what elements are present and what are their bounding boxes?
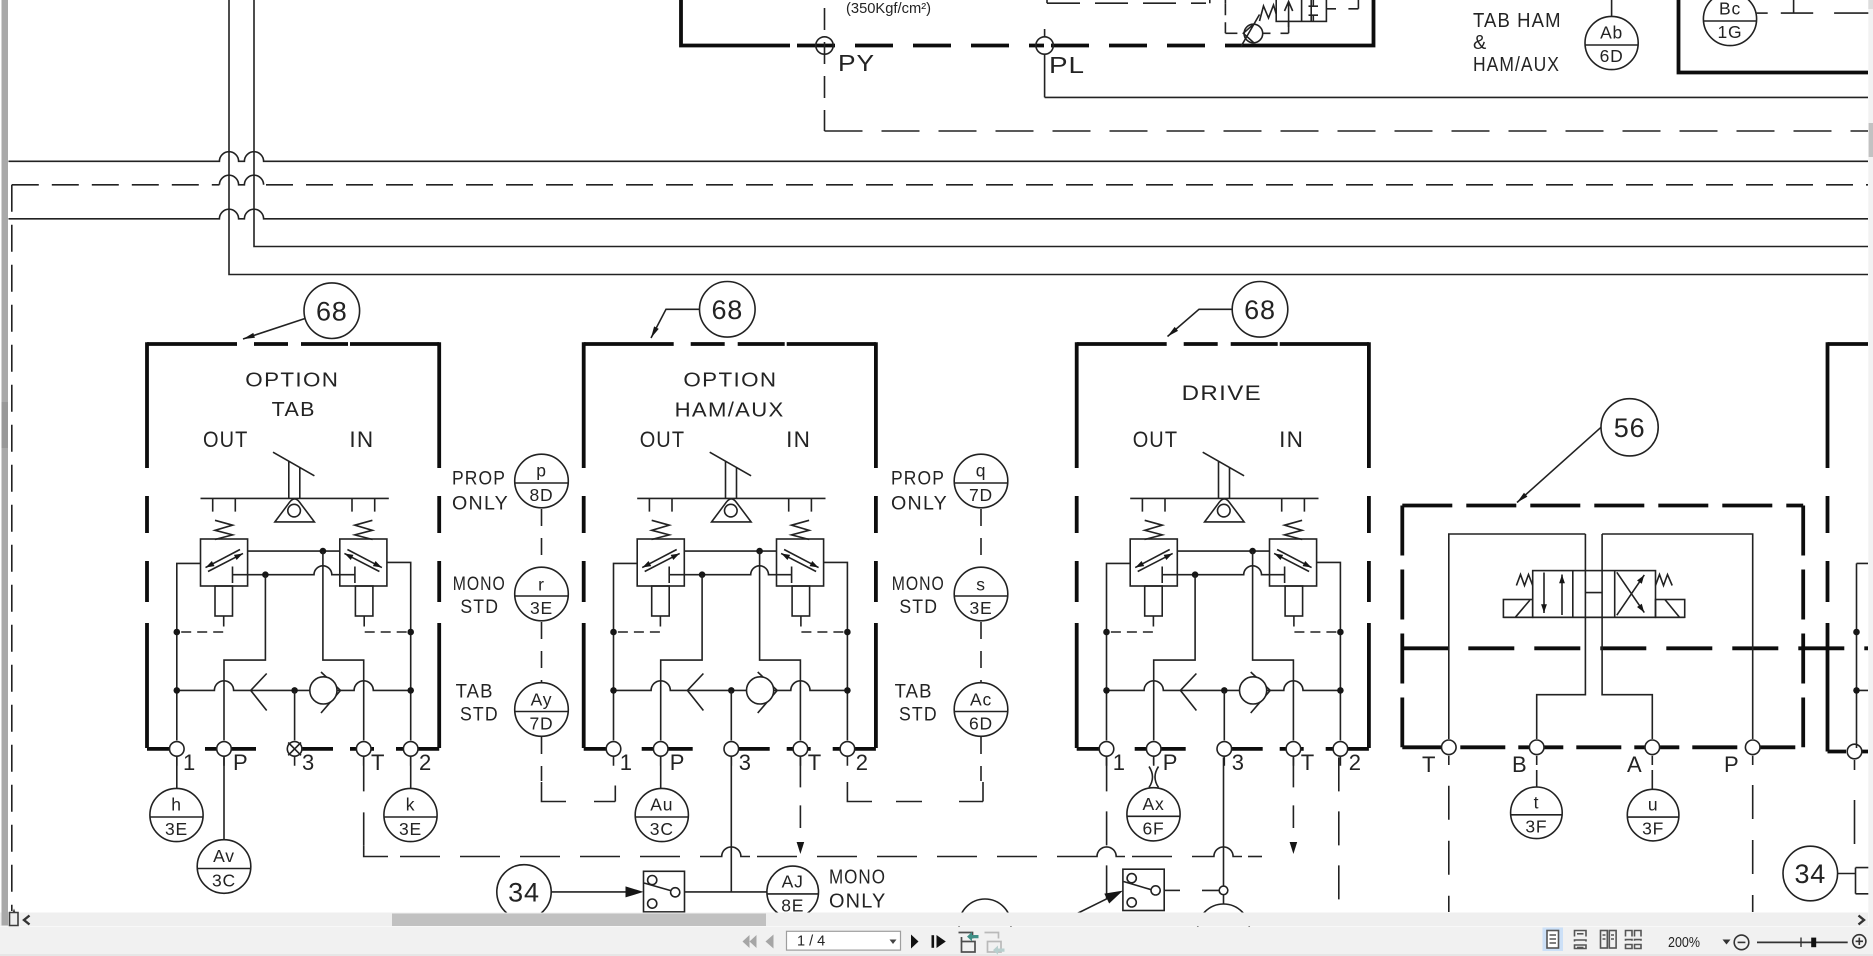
balloon Ax/6F with disconnect marks: [1153, 757, 1155, 764]
svg-text:PY: PY: [838, 50, 875, 76]
pilot T symbol: [1781, 0, 1813, 13]
valve block 1 OPTION TAB: [147, 342, 439, 775]
previous page button (disabled): [766, 935, 774, 949]
block 56 left frame: [1449, 534, 1586, 739]
wire: pilot line right of relief valve: [1326, 0, 1358, 9]
svg-text:3E: 3E: [399, 819, 422, 839]
balloon 68 (block 1): [304, 283, 360, 339]
balloon column p/r/Ay: [515, 454, 569, 781]
svg-text:B: B: [1512, 752, 1527, 777]
svg-text:3E: 3E: [165, 819, 188, 839]
check valve CV1: [1244, 24, 1263, 43]
balloon Av/3C: [223, 757, 225, 839]
svg-text:34: 34: [1794, 859, 1826, 889]
first page button (disabled): [743, 935, 750, 948]
svg-text:ONLY: ONLY: [829, 891, 887, 913]
wire: vertical V2 + full width line L4: [254, 0, 1868, 247]
dashed region boundary with jump arcs: [364, 846, 388, 857]
right clipped valve block left dashed edge: [1826, 342, 1830, 751]
wire: thick dashed supply line PY-PL: [797, 44, 1044, 48]
svg-text:200%: 200%: [1668, 935, 1700, 951]
svg-text:8D: 8D: [530, 485, 554, 505]
block 56 dashed enclosure: [1402, 504, 1803, 508]
two page view button: [1601, 931, 1617, 949]
block 56 right frame: [1602, 534, 1753, 739]
scroll left arrow: [24, 916, 30, 925]
svg-text:P: P: [1724, 752, 1739, 777]
valve block 2 OPTION HAM/AUX: [584, 342, 876, 775]
dashed U link column1 to block2 port1: [542, 782, 616, 802]
node PY: [816, 37, 833, 54]
wire: switch S2 output: [1164, 889, 1180, 891]
balloon 56: [1601, 399, 1658, 456]
valve block 3 DRIVE: [1077, 342, 1369, 775]
wire: dashed drop from block3 port 2: [1338, 757, 1340, 920]
svg-text:1 / 4: 1 / 4: [797, 934, 825, 950]
svg-text:ONLY: ONLY: [452, 494, 509, 515]
leader to block 2: [651, 309, 700, 338]
svg-text:u: u: [1648, 795, 1659, 815]
valve center cell closed tick: [1585, 592, 1602, 594]
wire: dashed drop below right block port: [1854, 800, 1856, 844]
right vertical scrollbar: [1868, 0, 1873, 930]
mini page icon bottom left: [10, 913, 19, 926]
block 56 port ticks: [1449, 756, 1753, 765]
svg-text:TAB: TAB: [272, 399, 316, 421]
svg-text:OPTION: OPTION: [245, 370, 339, 392]
block 56 port A: [1645, 740, 1660, 755]
svg-text:ONLY: ONLY: [891, 494, 948, 515]
svg-text:3C: 3C: [212, 871, 236, 891]
left pane scrollbar strip: [2, 0, 9, 926]
zoom out button: [1734, 935, 1749, 950]
block 56 port T: [1442, 740, 1457, 755]
wire: dashed drop from 56 port P: [1752, 785, 1754, 912]
node junction below block3 port3: [1219, 886, 1228, 895]
balloon Ab/6D: [1611, 0, 1613, 16]
block 56 port P: [1745, 740, 1760, 755]
svg-text:Ax: Ax: [1142, 794, 1164, 814]
svg-text:TAB: TAB: [456, 682, 494, 703]
leader to block 1: [243, 319, 305, 340]
balloon h/3E: [176, 757, 178, 788]
node PL: [1036, 37, 1053, 54]
svg-text:3E: 3E: [969, 598, 992, 618]
wire: block3 port 3 drop to node: [1223, 757, 1225, 886]
balloon column q/s/Ac: [954, 454, 1008, 781]
svg-text:STD: STD: [460, 705, 499, 726]
dashed boundary through block 56 row: [1402, 646, 1868, 650]
balloon AJ/8E: [767, 866, 819, 918]
block 56 port B: [1529, 740, 1544, 755]
svg-text:DRIVE: DRIVE: [1182, 382, 1263, 405]
svg-text:PROP: PROP: [891, 469, 945, 490]
svg-text:OPTION: OPTION: [683, 370, 777, 392]
wire: left dashed region border: [11, 185, 13, 911]
right clipped valve block top edge: [1828, 342, 1869, 346]
svg-text:6D: 6D: [1600, 46, 1624, 66]
last page button: [932, 935, 935, 948]
svg-text:7D: 7D: [969, 485, 993, 505]
valve springs: [1516, 575, 1532, 586]
wire: switch S1 to balloon AJ: [685, 891, 767, 893]
wire: dashed pilot boundary from PY to right edge: [825, 130, 1869, 132]
page number input: [787, 931, 901, 950]
svg-text:T: T: [1422, 752, 1436, 777]
scroll right arrow: [1859, 916, 1865, 925]
right clipped valve block bottom edge with port: [1828, 750, 1869, 754]
wire: thin line from PL to right edge: [1045, 96, 1868, 98]
leader to block 3: [1168, 309, 1233, 336]
balloon Bc/1G (cut at top): [1703, 0, 1756, 46]
snapshot icon: [959, 933, 976, 953]
svg-text:Ac: Ac: [970, 690, 992, 710]
svg-text:Ay: Ay: [531, 690, 553, 710]
svg-text:Av: Av: [213, 846, 235, 866]
svg-text:6D: 6D: [969, 714, 993, 734]
svg-text:TAB HAM: TAB HAM: [1473, 10, 1562, 32]
wire: dashed arrow from block2 port T to boundary: [799, 757, 801, 828]
wire: thick supply line right + corner up: [1262, 0, 1374, 47]
balloon t/3F: [1536, 770, 1538, 787]
relief valve spring: [1260, 5, 1277, 21]
balloon 34 left: [497, 865, 551, 919]
svg-text:3E: 3E: [530, 598, 553, 618]
svg-text:p: p: [536, 461, 547, 481]
svg-text:TAB: TAB: [895, 682, 933, 703]
balloon (cut) below column2: [959, 899, 1011, 951]
svg-text:AJ: AJ: [782, 872, 804, 892]
wire: block2 port 3 drop to switch wire: [730, 757, 732, 892]
svg-text:s: s: [976, 575, 986, 595]
directional valve body: [1533, 571, 1656, 618]
balloon 34 right: [1783, 846, 1838, 901]
svg-text:1G: 1G: [1718, 22, 1743, 42]
wire: dashed drop from block1 port T: [363, 757, 365, 845]
wire: full width line L1 with jump arcs: [9, 152, 1869, 162]
svg-text:34: 34: [508, 878, 540, 908]
wire: dashed pilot line at top: [1046, 0, 1048, 3]
svg-text:t: t: [1534, 793, 1540, 813]
svg-text:3F: 3F: [1642, 819, 1664, 839]
wire: dashed from CV1 to relief valve: [1263, 22, 1289, 33]
wire: thick supply box top-left corner: [681, 0, 790, 46]
next page button: [911, 935, 919, 949]
svg-text:3C: 3C: [650, 819, 674, 839]
wire: dashed drop from 56 port T: [1448, 786, 1450, 912]
zoom in button: [1853, 935, 1866, 948]
port 3 plug cross (block 1): [288, 743, 301, 756]
svg-text:HAM/AUX: HAM/AUX: [675, 400, 785, 422]
balloon u/3F: [1651, 770, 1653, 789]
balloon 68 (block 2): [700, 282, 756, 338]
wire: dashed arrow from block3 port T to boundary: [1292, 757, 1294, 828]
wire: thick box top right: [1679, 0, 1869, 73]
svg-text:PL: PL: [1049, 52, 1085, 78]
wire from balloon 34 to right edge bracket: [1838, 868, 1869, 894]
wire: full width dashed line L2 with jump arcs: [12, 184, 220, 186]
wire: dashed drop from block3 port 1: [1106, 757, 1108, 920]
right clipped block internal wire with junction dots: [1857, 563, 1869, 748]
relief valve RV1 (cut at top): [1276, 0, 1326, 21]
svg-text:r: r: [538, 575, 545, 595]
balloon (cut) below node: [1198, 904, 1250, 956]
wire: full width line L3 with jump arcs: [9, 209, 1869, 219]
svg-text:56: 56: [1614, 413, 1646, 443]
svg-text:&: &: [1473, 32, 1488, 54]
relief valve adjuster ticks: [1309, 0, 1319, 21]
continuous scroll view button: [1575, 931, 1587, 949]
svg-text:STD: STD: [899, 597, 938, 618]
svg-text:Ab: Ab: [1600, 23, 1623, 43]
single page view button (active): [1543, 928, 1564, 952]
wire: pilot stub right of Bc: [1757, 12, 1768, 14]
svg-text:MONO: MONO: [453, 574, 506, 595]
svg-text:68: 68: [711, 295, 743, 325]
leader to block 56: [1517, 427, 1601, 502]
two page scroll view button: [1626, 931, 1642, 949]
balloon Au/3C: [660, 757, 662, 788]
svg-text:MONO: MONO: [892, 574, 945, 595]
wire: vertical V1 + full width line L5: [229, 0, 1868, 275]
wire: dashed stub to right edge: [1834, 12, 1869, 14]
valve pilot boxes: [1503, 600, 1532, 618]
svg-text:A: A: [1627, 752, 1642, 777]
svg-text:k: k: [406, 795, 416, 815]
valve left cell arrows: [1543, 573, 1545, 614]
wire from 34 to switch S1 with arrow: [551, 891, 626, 893]
svg-text:Au: Au: [650, 795, 673, 815]
zoom slider: [1757, 941, 1848, 943]
svg-text:68: 68: [316, 297, 348, 327]
svg-text:3F: 3F: [1525, 817, 1547, 837]
svg-text:h: h: [171, 795, 182, 815]
svg-text:6F: 6F: [1142, 819, 1164, 839]
svg-text:PROP: PROP: [452, 469, 506, 490]
svg-text:STD: STD: [899, 705, 938, 726]
svg-text:Bc: Bc: [1719, 0, 1741, 19]
svg-text:q: q: [976, 461, 987, 481]
clipboard icon (disabled): [985, 933, 1002, 953]
balloon 68 (block 3): [1232, 282, 1288, 338]
svg-text:MONO: MONO: [829, 867, 886, 889]
svg-text:(350Kgf/cm²): (350Kgf/cm²): [846, 1, 931, 17]
valve right cell crossed arrows: [1617, 575, 1645, 615]
svg-text:68: 68: [1244, 295, 1276, 325]
svg-text:HAM/AUX: HAM/AUX: [1473, 54, 1560, 76]
dashed U link block2 port2 to column2: [847, 782, 983, 802]
switch S1: [644, 871, 685, 912]
svg-text:7D: 7D: [530, 714, 554, 734]
balloon k/3E: [410, 757, 412, 788]
wire: diagonal into switch S2 with arrow: [1066, 899, 1107, 919]
horizontal scrollbar row: [0, 913, 1868, 927]
toolbar background: [0, 927, 1873, 956]
switch S2: [1123, 869, 1164, 910]
svg-text:STD: STD: [460, 597, 499, 618]
